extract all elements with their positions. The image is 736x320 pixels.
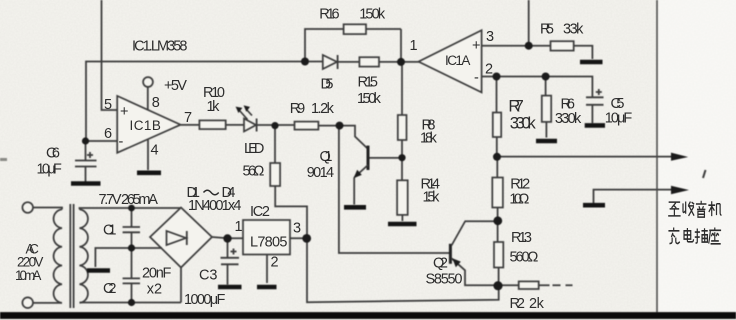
svg-text:15k: 15k <box>423 190 441 206</box>
svg-text:IC1.LM358: IC1.LM358 <box>132 39 187 55</box>
svg-text:R6: R6 <box>561 96 575 112</box>
svg-text:10Ω: 10Ω <box>509 192 529 208</box>
svg-text:+: + <box>472 38 480 54</box>
svg-text:Q1: Q1 <box>320 149 333 165</box>
svg-text:-: - <box>474 70 479 86</box>
svg-text:C1: C1 <box>103 223 116 239</box>
svg-text:R7: R7 <box>508 98 523 116</box>
svg-text:R12: R12 <box>510 177 530 193</box>
svg-text:R5: R5 <box>540 22 554 38</box>
svg-text:R2: R2 <box>510 296 525 312</box>
svg-text:R9: R9 <box>290 101 305 117</box>
svg-text:IC1A: IC1A <box>445 53 470 68</box>
svg-text:+5V: +5V <box>164 78 187 94</box>
svg-text:20nF: 20nF <box>142 266 172 282</box>
svg-text:S8550: S8550 <box>426 272 463 288</box>
svg-text:2: 2 <box>271 255 279 271</box>
svg-text:4: 4 <box>151 143 159 159</box>
svg-text:R15: R15 <box>358 75 378 91</box>
svg-text:10μF: 10μF <box>605 111 633 127</box>
svg-text:IC2: IC2 <box>250 204 270 220</box>
svg-text:3: 3 <box>293 221 301 237</box>
svg-text:LED: LED <box>244 141 264 157</box>
svg-text:Q2: Q2 <box>433 256 448 272</box>
svg-text:330k: 330k <box>555 111 582 127</box>
svg-text:L7805: L7805 <box>250 235 287 251</box>
svg-text:7.7V 265mA: 7.7V 265mA <box>99 192 159 208</box>
svg-text:C3: C3 <box>199 268 217 284</box>
svg-text:IC1B: IC1B <box>130 118 161 133</box>
svg-text:2: 2 <box>485 62 493 78</box>
svg-text:9014: 9014 <box>307 165 334 181</box>
svg-text:1k: 1k <box>207 99 221 115</box>
svg-text:150k: 150k <box>359 7 386 23</box>
svg-text:2k: 2k <box>529 296 545 312</box>
svg-text:+: + <box>120 104 128 120</box>
svg-text:D5: D5 <box>321 77 334 93</box>
svg-text:3: 3 <box>486 29 494 45</box>
svg-text:150k: 150k <box>357 91 382 107</box>
svg-text:10μF: 10μF <box>37 162 63 178</box>
svg-text:5: 5 <box>104 97 112 113</box>
svg-text:330k: 330k <box>510 115 537 133</box>
svg-text:33k: 33k <box>563 22 584 38</box>
svg-text:18k: 18k <box>420 131 438 147</box>
svg-text:8: 8 <box>152 95 160 111</box>
svg-text:10mA: 10mA <box>15 268 41 283</box>
svg-text:1N4001x4: 1N4001x4 <box>188 198 241 214</box>
svg-text:R13: R13 <box>511 230 532 246</box>
svg-text:R16: R16 <box>319 7 339 23</box>
svg-text:6: 6 <box>104 126 112 142</box>
svg-text:7: 7 <box>184 110 192 126</box>
svg-text:1000μF: 1000μF <box>184 292 226 308</box>
svg-text:56Ω: 56Ω <box>243 164 265 180</box>
svg-text:x2: x2 <box>147 282 162 298</box>
svg-text:1: 1 <box>235 219 243 235</box>
svg-text:C6: C6 <box>46 146 60 162</box>
svg-text:560Ω: 560Ω <box>510 250 539 266</box>
svg-text:C2: C2 <box>103 281 116 297</box>
svg-text:-: - <box>119 134 124 150</box>
svg-text:1: 1 <box>410 38 418 54</box>
svg-text:1.2k: 1.2k <box>311 101 335 117</box>
